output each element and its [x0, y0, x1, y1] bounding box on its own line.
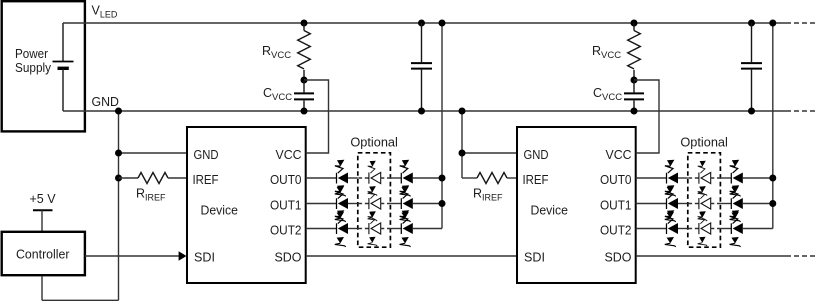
LED row 0 col 3 (device 2) — [730, 160, 743, 197]
svg-text:Controller: Controller — [16, 248, 70, 262]
wire optional box to col 3 LED row 1 (device 2) — [720, 203, 731, 205]
bypass capacitor C1 (between VLED and GND) — [418, 20, 425, 27]
wire optional box to col 3 LED row 0 (device 1) — [390, 177, 401, 179]
wire device 1 GND pin — [119, 152, 188, 154]
svg-text:+5 V: +5 V — [30, 192, 57, 206]
svg-text:Supply: Supply — [15, 61, 52, 75]
svg-text:IREF: IREF — [193, 173, 219, 187]
junction LED rail row 0 (device 2) — [769, 175, 776, 182]
LED row 1 col 3 (device 1) — [400, 185, 413, 222]
wire row 2 to optional box (device 1) — [348, 228, 358, 230]
svg-text:OUT1: OUT1 — [270, 199, 302, 213]
wire LED supply rail (device 2) — [772, 23, 774, 229]
battery BT1 (power supply source) — [62, 23, 64, 62]
optional LED row 1 (device 2) — [698, 186, 711, 221]
LED row 0 col 1 (device 1) — [335, 160, 348, 197]
svg-text:CVCC: CVCC — [593, 86, 622, 103]
LED row 1 col 1 (device 2) — [665, 185, 678, 222]
wire SDO device 2 continuation — [637, 255, 786, 257]
wire device 2 GND pin — [462, 152, 517, 154]
svg-text:SDO: SDO — [275, 251, 302, 265]
arrowhead into SDI of device 1 — [179, 251, 187, 260]
optional LED row 2 (device 2) — [698, 211, 711, 246]
svg-text:Optional: Optional — [680, 135, 728, 150]
wire row 2 to LED supply rail (device 1) — [413, 228, 442, 230]
LED row 2 col 3 (device 1) — [400, 210, 413, 247]
optional LED dashed box (device 2) — [688, 153, 721, 247]
power supply box PS — [2, 1, 85, 131]
wire row 1 to optional box (device 1) — [348, 203, 358, 205]
LED row 2 col 1 (device 1) — [335, 210, 348, 247]
wire row 0 to LED supply rail (device 1) — [413, 177, 442, 179]
wire GND rail dashed continuation — [786, 110, 818, 112]
dashed wire into optional LED row 1 (device 2) — [688, 203, 699, 205]
wire optional box to col 3 LED row 2 (device 1) — [390, 228, 401, 230]
wire controller SDI output — [85, 255, 179, 257]
junction CVCC / GND rail (device 1) — [301, 108, 308, 115]
junction GND rail / device 2 bias column — [459, 108, 466, 115]
+5 V supply bar — [33, 209, 53, 211]
resistor RIREF (device 1) — [119, 177, 139, 179]
svg-text:OUT2: OUT2 — [270, 224, 302, 238]
bypass capacitor C2 (between VLED and GND) — [748, 20, 755, 27]
dashed wire out of optional LED row 1 (device 1) — [381, 203, 391, 205]
wire row 2 to optional box (device 2) — [678, 228, 688, 230]
junction CVCC / GND rail (device 2) — [631, 108, 638, 115]
resistor RIREF (device 2) — [462, 177, 477, 179]
device U1 (LED driver) — [187, 127, 306, 283]
svg-text:Power: Power — [15, 47, 48, 61]
junction VLED rail / RVCC (device 2) — [631, 20, 638, 27]
svg-text:RVCC: RVCC — [592, 44, 621, 61]
optional LED row 0 (device 1) — [368, 161, 381, 196]
resistor RVCC (device 2) — [633, 23, 635, 31]
dashed wire out of optional LED row 2 (device 2) — [711, 228, 721, 230]
wire row 2 to LED supply rail (device 2) — [743, 228, 773, 230]
svg-text:RVCC: RVCC — [262, 44, 291, 61]
junction LED rail row 1 (device 2) — [769, 200, 776, 207]
dashed wire out of optional LED row 0 (device 1) — [381, 177, 391, 179]
controller box — [2, 232, 85, 275]
wire OUT0 (device 1) — [306, 177, 337, 179]
dashed wire into optional LED row 0 (device 1) — [358, 177, 369, 179]
wire SDO device 2 dashed continuation — [786, 255, 818, 257]
wire LED supply rail (device 1) — [441, 23, 443, 229]
svg-text:IREF: IREF — [523, 173, 549, 187]
wire row 1 to LED supply rail (device 2) — [743, 203, 773, 205]
dashed wire into optional LED row 2 (device 1) — [358, 228, 369, 230]
dashed wire out of optional LED row 2 (device 1) — [381, 228, 391, 230]
svg-text:SDI: SDI — [524, 251, 545, 265]
junction GND rail / bias column — [115, 108, 122, 115]
LED row 2 col 3 (device 2) — [730, 210, 743, 247]
junction RVCC / CVCC / VCC wire (device 1) — [301, 77, 308, 84]
svg-text:SDO: SDO — [605, 251, 632, 265]
optional LED dashed box (device 1) — [358, 153, 391, 247]
svg-text:Optional: Optional — [350, 135, 398, 150]
svg-text:VCC: VCC — [606, 148, 632, 162]
wire row 0 to optional box (device 1) — [348, 177, 358, 179]
wire optional box to col 3 LED row 2 (device 2) — [720, 228, 731, 230]
wire row 1 to LED supply rail (device 1) — [413, 203, 442, 205]
svg-text:RIREF: RIREF — [473, 187, 503, 203]
junction bias column / GND pin wire — [115, 150, 122, 157]
svg-text:GND: GND — [92, 95, 120, 109]
junction LED rail row 0 (device 1) — [439, 175, 446, 182]
junction RVCC / CVCC / VCC wire (device 2) — [631, 77, 638, 84]
dashed wire out of optional LED row 0 (device 2) — [711, 177, 721, 179]
optional LED row 1 (device 1) — [368, 186, 381, 221]
wire VLED rail dashed continuation — [786, 22, 818, 24]
LED row 1 col 3 (device 2) — [730, 185, 743, 222]
dashed wire into optional LED row 2 (device 2) — [688, 228, 699, 230]
svg-text:VCC: VCC — [276, 148, 302, 162]
svg-text:OUT0: OUT0 — [270, 173, 302, 187]
svg-text:CVCC: CVCC — [263, 86, 292, 103]
wire VCC pin (device 2) — [634, 80, 659, 153]
wire row 1 to optional box (device 2) — [678, 203, 688, 205]
device U2 (LED driver) — [517, 127, 636, 283]
LED row 2 col 1 (device 2) — [665, 210, 678, 247]
svg-text:RIREF: RIREF — [136, 187, 166, 203]
svg-text:VLED: VLED — [92, 4, 118, 20]
wire OUT2 (device 1) — [306, 228, 337, 230]
junction bias column / IREF wire — [115, 175, 122, 182]
LED row 1 col 1 (device 1) — [335, 185, 348, 222]
svg-text:OUT2: OUT2 — [600, 224, 632, 238]
junction device 2 bias column / GND pin wire — [459, 150, 466, 157]
capacitor CVCC (device 2) — [633, 80, 635, 92]
wire OUT1 (device 2) — [636, 203, 667, 205]
wire OUT1 (device 1) — [306, 203, 337, 205]
svg-text:Device: Device — [531, 204, 569, 218]
junction LED rail row 1 (device 1) — [439, 200, 446, 207]
resistor RVCC (device 1) — [303, 23, 305, 31]
dashed wire into optional LED row 0 (device 2) — [688, 177, 699, 179]
svg-text:SDI: SDI — [194, 251, 215, 265]
svg-text:OUT1: OUT1 — [600, 199, 632, 213]
svg-text:Device: Device — [201, 204, 239, 218]
wire optional box to col 3 LED row 1 (device 1) — [390, 203, 401, 205]
optional LED row 2 (device 1) — [368, 211, 381, 246]
svg-text:GND: GND — [524, 148, 549, 162]
LED row 0 col 3 (device 1) — [400, 160, 413, 197]
wire optional box to col 3 LED row 0 (device 2) — [720, 177, 731, 179]
wire GND rail to device 2 bias column — [461, 111, 463, 178]
svg-text:OUT0: OUT0 — [600, 173, 632, 187]
wire VLED rail — [63, 22, 786, 24]
svg-text:GND: GND — [194, 148, 219, 162]
wire +5V to controller — [41, 210, 43, 231]
wire VCC pin (device 1) — [304, 80, 329, 153]
capacitor CVCC (device 1) — [303, 80, 305, 92]
dashed wire into optional LED row 1 (device 1) — [358, 203, 369, 205]
junction VLED rail / LED rail (device 1) — [439, 20, 446, 27]
wire row 0 to LED supply rail (device 2) — [743, 177, 773, 179]
wire GND rail — [63, 110, 786, 112]
wire controller ground return — [118, 178, 120, 300]
junction VLED rail / RVCC (device 1) — [301, 20, 308, 27]
wire GND rail to device 1 bias column — [118, 111, 120, 178]
optional LED row 0 (device 2) — [698, 161, 711, 196]
wire OUT2 (device 2) — [636, 228, 667, 230]
wire OUT0 (device 2) — [636, 177, 667, 179]
wire row 0 to optional box (device 2) — [678, 177, 688, 179]
wire SDO device 1 to SDI device 2 — [306, 255, 517, 257]
dashed wire out of optional LED row 1 (device 2) — [711, 203, 721, 205]
LED row 0 col 1 (device 2) — [665, 160, 678, 197]
junction VLED rail / LED rail (device 2) — [769, 20, 776, 27]
